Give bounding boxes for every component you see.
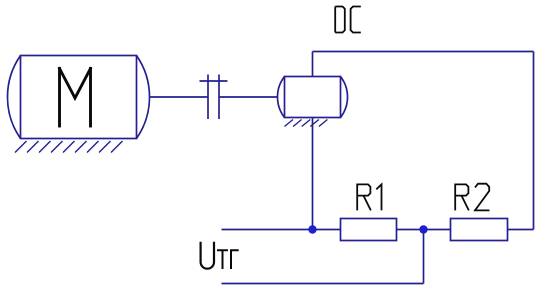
label DC (tachogenerator) — [335, 7, 361, 33]
coupling K1 — [200, 75, 228, 120]
node A junction dot — [308, 225, 316, 233]
wire: DC top lead up — [312, 52, 314, 77]
wire: right vertical — [533, 52, 535, 230]
motor M1 body — [7, 56, 149, 139]
label U tg (tachogenerator voltage) — [201, 242, 239, 269]
motor mounting hatching (ground) — [15, 141, 123, 153]
label R1 — [357, 184, 381, 210]
wire: motor shaft to coupling — [150, 96, 209, 98]
wire: top horizontal — [313, 51, 534, 53]
wire: node B to R2 — [424, 229, 451, 231]
wire: R1 to node B — [397, 229, 424, 231]
label R2 — [455, 184, 489, 211]
label M (motor) — [60, 69, 91, 127]
wire: R2 right to right vertical — [508, 229, 534, 231]
wire: node B down — [423, 230, 425, 284]
node B junction dot — [419, 225, 427, 233]
resistor R1 — [341, 219, 397, 241]
resistor R2 — [451, 219, 508, 241]
wire: bottom horizontal — [222, 283, 424, 285]
wire: left lead to node A — [222, 229, 313, 231]
wire: DC bottom lead down to node A — [312, 118, 314, 230]
wire: node A to R1 — [313, 229, 341, 231]
tachogenerator mounting hatching (ground) — [285, 120, 328, 127]
tachogenerator DC body — [277, 77, 347, 118]
wire: coupling to tachogenerator shaft — [219, 96, 278, 98]
